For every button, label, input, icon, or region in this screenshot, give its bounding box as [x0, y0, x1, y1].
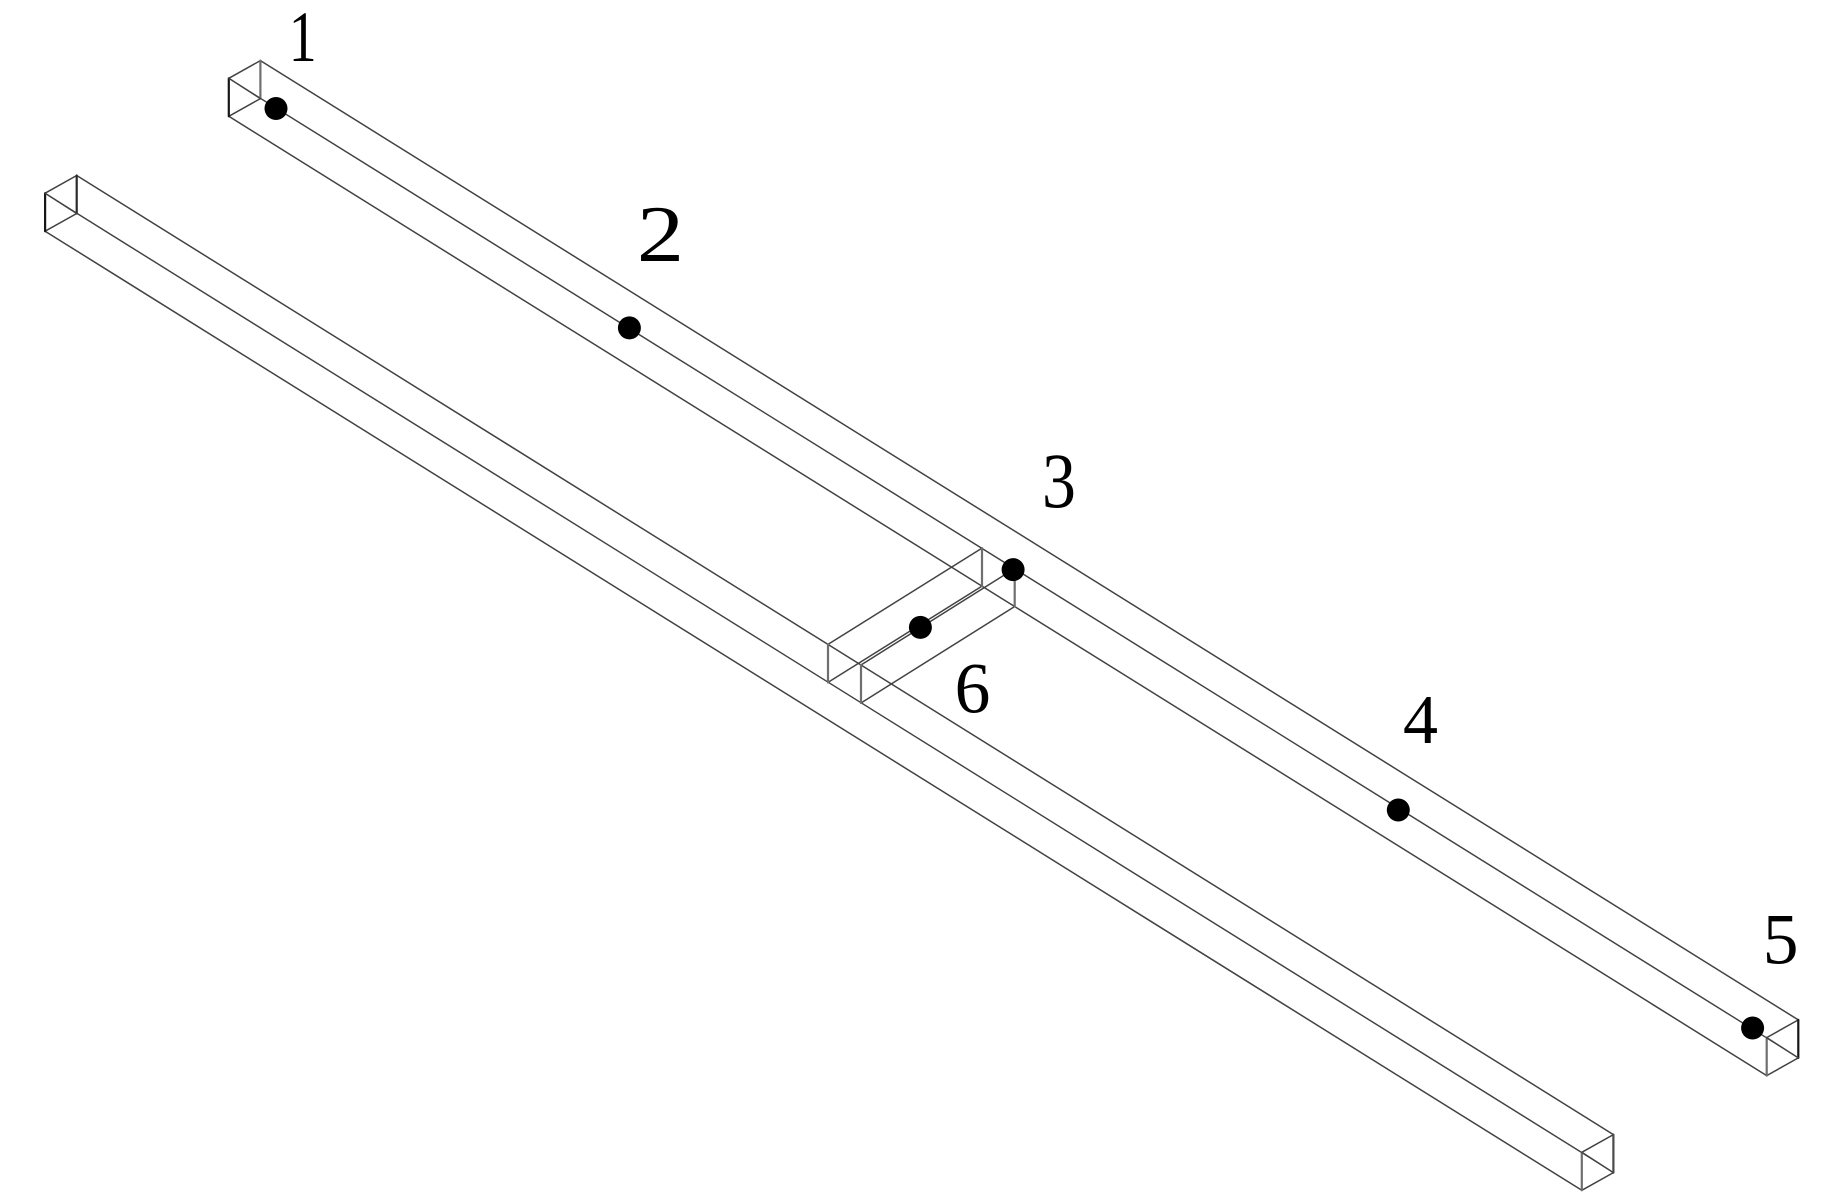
svg-text:2: 2	[637, 190, 684, 279]
beam B front-bottom edge	[77, 214, 1614, 1173]
beam B back-top edge	[45, 193, 1582, 1152]
svg-text:6: 6	[955, 649, 991, 728]
measurement dot 4	[1387, 799, 1410, 822]
svg-text:3: 3	[1042, 437, 1076, 523]
measurement dot 1	[265, 97, 288, 120]
beam B left end face bottom	[45, 214, 77, 232]
beam B top edge	[77, 176, 1614, 1135]
connector far-top edge	[861, 569, 1015, 666]
beam B bottom edge	[45, 231, 1582, 1190]
connector far-bottom edge	[861, 607, 1015, 704]
beam A left end face back vertical	[228, 78, 230, 116]
beam A bottom edge	[229, 116, 1767, 1075]
svg-text:4: 4	[1403, 682, 1438, 759]
beam B right end face front vertical	[1612, 1135, 1614, 1173]
beam A top edge	[260, 61, 1798, 1020]
beam A right end face front vertical	[1797, 1020, 1799, 1058]
beam B right end face bottom	[1582, 1173, 1614, 1191]
beam A right end face bottom	[1767, 1058, 1799, 1076]
connector near-top edge	[828, 548, 982, 644]
beam A left end face top	[229, 61, 261, 79]
measurement dot 2	[618, 316, 641, 339]
beam A right end face top	[1767, 1020, 1799, 1038]
beam A right end face diagonal	[1767, 1038, 1799, 1058]
beam A back-top edge	[229, 78, 1767, 1037]
measurement dot 5	[1741, 1017, 1764, 1040]
beam B left end face back vertical	[44, 193, 46, 231]
connector left near contact vertical	[827, 644, 829, 682]
connector left far contact vertical	[860, 665, 862, 703]
beam B right end face top	[1582, 1135, 1614, 1153]
beam A front-bottom edge	[260, 99, 1798, 1058]
connector right far contact vertical	[1014, 569, 1016, 607]
beam A left end face front vertical	[259, 61, 261, 99]
beam B right end face diagonal	[1582, 1152, 1614, 1172]
beam A left end face diagonal	[229, 78, 261, 98]
beam B left end face top	[45, 176, 77, 194]
beam B left end face front vertical	[76, 176, 78, 214]
beam B left end face diagonal	[45, 193, 77, 213]
measurement dot 3	[1002, 558, 1025, 581]
svg-text:5: 5	[1763, 900, 1799, 979]
svg-text:1: 1	[289, 0, 317, 77]
connector right near contact vertical	[981, 548, 983, 586]
beam B right end face back vertical	[1581, 1152, 1583, 1190]
beam A right end face back vertical	[1766, 1038, 1768, 1076]
beam A left end face bottom	[229, 99, 261, 117]
measurement dot 6	[909, 616, 932, 639]
connector near-bottom edge	[828, 586, 982, 682]
